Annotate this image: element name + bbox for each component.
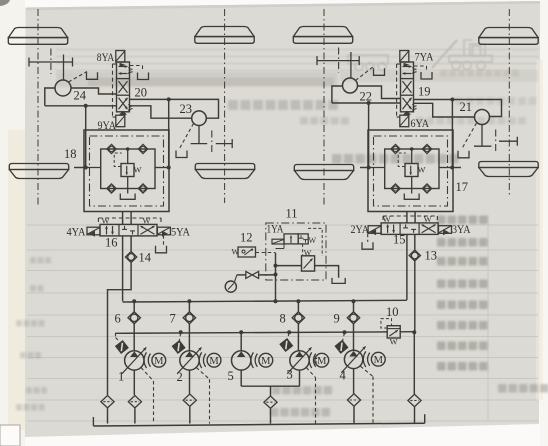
motor M5 xyxy=(251,352,273,368)
pump 2 drain xyxy=(196,368,209,424)
svg-text:23: 23 xyxy=(180,102,193,116)
steering cylinder 24 xyxy=(55,80,71,96)
pump 4 actuator xyxy=(334,340,348,354)
svg-text:10: 10 xyxy=(386,305,399,319)
label 9 xyxy=(334,312,340,326)
svg-text:2YA: 2YA xyxy=(351,222,370,236)
wire xyxy=(315,266,339,278)
svg-text:M: M xyxy=(317,356,327,367)
label 20 xyxy=(135,86,148,100)
svg-text:13: 13 xyxy=(425,249,438,263)
wire xyxy=(122,212,124,225)
check valve 8 xyxy=(292,312,304,324)
svg-text:5YA: 5YA xyxy=(171,225,190,239)
valve 16 pilot dashes xyxy=(98,218,161,224)
junction xyxy=(343,330,347,334)
wire xyxy=(299,370,301,386)
valve 20 pilot dashes xyxy=(113,64,117,117)
motor M3 xyxy=(309,352,328,368)
steering motor 23 xyxy=(192,111,207,126)
wire xyxy=(406,212,408,223)
label 19 xyxy=(418,85,431,99)
filter under pump 1 xyxy=(128,396,141,408)
steering axle cross 21 xyxy=(496,130,518,154)
valve 16 drain xyxy=(156,235,167,253)
wire xyxy=(237,274,276,276)
valve 20 drain line xyxy=(130,66,149,80)
pump 2 (variable) xyxy=(177,347,201,373)
wire xyxy=(130,236,132,252)
steering axle cross 23 xyxy=(212,131,232,153)
wire xyxy=(45,105,116,107)
label 2 xyxy=(177,370,183,384)
tyre rear-mid-right xyxy=(294,165,353,180)
solenoid 5YA label xyxy=(171,225,190,239)
label 3 xyxy=(287,368,293,382)
wire xyxy=(130,106,192,118)
junction xyxy=(450,98,454,102)
valve block 17 (bridge + relief) xyxy=(368,130,453,212)
label 7 xyxy=(170,312,176,326)
svg-text:W: W xyxy=(410,103,419,111)
steering column 22 xyxy=(350,52,352,78)
svg-text:19: 19 xyxy=(418,85,431,99)
pump 3 actuator pilot xyxy=(287,333,289,340)
svg-text:15: 15 xyxy=(393,233,406,247)
label 6 xyxy=(115,312,121,326)
shutoff valve xyxy=(246,271,259,278)
wire xyxy=(240,332,242,351)
valve 16 (4/3 solenoid directional valve) xyxy=(87,216,170,237)
svg-text:12: 12 xyxy=(240,231,253,245)
wire xyxy=(74,167,84,169)
pump 1 actuator pilot xyxy=(116,333,120,341)
check valve 13 xyxy=(409,250,420,261)
wire xyxy=(414,103,475,117)
junction xyxy=(274,273,278,277)
wire xyxy=(414,212,416,223)
wire xyxy=(168,99,170,167)
wire xyxy=(413,332,415,394)
svg-text:2: 2 xyxy=(177,370,183,384)
steering motor 21 xyxy=(475,110,490,125)
label 8 xyxy=(280,312,286,326)
solenoid 4YA label xyxy=(67,225,86,239)
drain at cylinder 22 xyxy=(356,67,385,81)
label 13 xyxy=(425,249,438,263)
junction xyxy=(167,97,171,101)
drain at motor 21 xyxy=(458,123,477,158)
svg-text:4YA: 4YA xyxy=(67,225,86,239)
lower manifold xyxy=(116,332,415,334)
valve 15 drain xyxy=(362,234,373,250)
svg-text:6YA: 6YA xyxy=(411,116,430,130)
check valve 9 xyxy=(347,312,359,324)
svg-text:W: W xyxy=(309,236,317,245)
junction xyxy=(167,166,171,170)
junction xyxy=(132,299,136,303)
valve 15 (4/3 solenoid directional valve) xyxy=(368,214,451,235)
wire xyxy=(353,407,355,424)
pump 3 drain xyxy=(306,368,315,424)
svg-text:16: 16 xyxy=(105,236,118,250)
svg-text:M: M xyxy=(209,356,219,367)
svg-text:W: W xyxy=(142,216,150,226)
drain at cylinder 24 xyxy=(69,72,98,83)
steering axle cross right-front xyxy=(317,48,359,73)
wire xyxy=(241,385,299,387)
wire xyxy=(360,167,368,169)
filter right return xyxy=(408,394,421,406)
junction xyxy=(274,299,278,303)
wire xyxy=(414,234,416,249)
label 11 xyxy=(286,207,298,221)
wire xyxy=(188,324,190,351)
wire return jog xyxy=(108,263,132,396)
label 15 xyxy=(393,233,406,247)
svg-text:W: W xyxy=(101,216,109,226)
pump 4 drain xyxy=(360,366,373,423)
axle centreline front-mid-right xyxy=(323,9,325,205)
label 14 xyxy=(139,251,152,265)
axle centreline front-right xyxy=(508,9,510,195)
label 24 xyxy=(74,89,87,103)
label 18 xyxy=(64,147,77,161)
steering cylinder 22 xyxy=(343,78,358,93)
upper manifold xyxy=(123,300,407,302)
svg-text:M: M xyxy=(154,356,164,367)
svg-text:18: 18 xyxy=(64,147,77,161)
motor M4 xyxy=(363,351,385,367)
filter left return xyxy=(101,396,114,408)
wire xyxy=(130,99,219,118)
pump 4 (variable) xyxy=(341,346,365,372)
wire xyxy=(358,86,401,99)
wire xyxy=(240,370,242,386)
filter under pump 4 xyxy=(347,394,360,406)
valve 20 (4/3 solenoid directional valve) xyxy=(116,51,135,127)
svg-text:1YA: 1YA xyxy=(267,222,284,236)
svg-text:9: 9 xyxy=(334,312,340,326)
tyre front-mid-right xyxy=(293,27,352,44)
relief valve 10 xyxy=(381,319,400,347)
pump 1 drain xyxy=(141,368,154,424)
wire xyxy=(134,408,136,423)
wire xyxy=(85,106,87,168)
label 21 xyxy=(460,100,473,114)
svg-text:1: 1 xyxy=(118,370,124,384)
svg-text:W: W xyxy=(417,165,425,175)
solenoid 3YA label xyxy=(452,222,471,236)
solenoid 8YA label xyxy=(97,50,115,64)
check valve 6 xyxy=(128,312,140,324)
check valve 14 xyxy=(126,252,137,263)
valve 15 pilot dashes xyxy=(383,216,437,223)
wire xyxy=(297,324,299,351)
tyre front-mid-left xyxy=(195,27,254,44)
svg-text:6: 6 xyxy=(115,312,121,326)
wire xyxy=(297,301,299,312)
svg-text:17: 17 xyxy=(456,180,469,194)
tyre front-right xyxy=(479,28,538,45)
drain at motor 23 xyxy=(176,124,194,158)
valve block 18 (bridge + relief) xyxy=(84,130,169,212)
valve 19 pilot dashes xyxy=(397,64,400,117)
label 12 xyxy=(240,231,253,245)
svg-text:14: 14 xyxy=(139,251,152,265)
rail stub left xyxy=(92,417,94,426)
svg-text:5: 5 xyxy=(228,369,234,383)
wire xyxy=(188,301,190,312)
unit 11 enclosure xyxy=(266,223,326,280)
solenoid 2YA label xyxy=(351,222,370,236)
junction xyxy=(239,330,243,334)
junction xyxy=(352,299,356,303)
wire xyxy=(353,369,355,394)
svg-text:W: W xyxy=(232,248,240,257)
pressure gauge xyxy=(225,275,237,292)
wire xyxy=(133,324,135,351)
wire xyxy=(451,100,453,168)
axle centreline front-left xyxy=(37,9,39,205)
junction xyxy=(179,330,183,334)
label 4 xyxy=(340,369,347,383)
svg-text:W: W xyxy=(390,337,398,347)
svg-text:4: 4 xyxy=(340,369,347,383)
wire xyxy=(453,167,461,169)
junction xyxy=(84,166,88,170)
axle centreline front-mid-left xyxy=(224,9,226,203)
pump 2 actuator pilot xyxy=(179,333,181,342)
label 23 xyxy=(180,102,193,116)
svg-text:M: M xyxy=(261,356,271,367)
motor M1 xyxy=(144,352,166,368)
svg-text:W: W xyxy=(126,66,135,74)
wire xyxy=(332,86,343,103)
svg-text:21: 21 xyxy=(460,100,473,114)
wire xyxy=(270,409,272,424)
label 22 xyxy=(360,90,373,104)
pilot line to switch 12 xyxy=(256,252,276,254)
pump 1 (variable) xyxy=(122,347,146,373)
motor M2 xyxy=(199,352,221,368)
valve 1YA (2/2 unloading valve) xyxy=(272,234,317,245)
label 1 xyxy=(118,370,124,384)
svg-text:7: 7 xyxy=(170,312,176,326)
wire xyxy=(71,88,116,94)
wire xyxy=(133,370,135,395)
junction xyxy=(296,299,300,303)
junction xyxy=(367,101,371,105)
label 5 xyxy=(228,369,234,383)
pump 5 (fixed) xyxy=(232,351,251,370)
wire xyxy=(133,301,135,312)
check valve 7 xyxy=(183,312,195,324)
svg-text:W: W xyxy=(133,165,141,175)
wire xyxy=(414,100,502,117)
tyre rear-left xyxy=(9,164,68,179)
solenoid 1YA label xyxy=(267,222,284,236)
junction xyxy=(367,166,371,170)
junction xyxy=(287,330,291,334)
svg-text:24: 24 xyxy=(74,89,87,103)
pressure switch 12 xyxy=(232,247,256,257)
wire xyxy=(276,265,301,267)
svg-text:7YA: 7YA xyxy=(415,50,434,64)
junction xyxy=(274,264,278,268)
wire xyxy=(189,407,191,424)
svg-text:22: 22 xyxy=(360,90,373,104)
label 10 xyxy=(386,305,399,319)
wire xyxy=(270,386,272,395)
wire xyxy=(45,88,55,106)
wire xyxy=(107,408,109,423)
tyre rear-mid-left xyxy=(195,164,254,179)
steering link 21 xyxy=(474,125,491,147)
svg-text:11: 11 xyxy=(286,207,298,221)
pump 1 actuator xyxy=(115,340,129,354)
relief valve in unit 11 xyxy=(302,248,315,271)
wire xyxy=(332,102,400,104)
rail stub right xyxy=(424,414,426,423)
label 17 xyxy=(456,180,469,194)
solenoid 7YA label xyxy=(415,50,434,64)
pump 4 actuator pilot xyxy=(343,333,345,341)
valve 19 drain line xyxy=(414,66,432,79)
valve 1YA pilot dashes xyxy=(303,228,323,256)
tyre front-left xyxy=(8,28,67,45)
tyre rear-right xyxy=(479,162,538,177)
svg-text:W: W xyxy=(126,103,135,111)
svg-text:8: 8 xyxy=(280,312,286,326)
svg-text:3: 3 xyxy=(287,368,293,382)
wire xyxy=(353,324,355,351)
steering column 24 xyxy=(63,55,65,81)
wire xyxy=(275,253,277,301)
wire xyxy=(276,244,285,249)
junction xyxy=(84,104,88,108)
wire xyxy=(368,103,370,168)
svg-text:W: W xyxy=(410,66,419,74)
filter under pumps 5 and 3 xyxy=(264,396,277,408)
label 16 xyxy=(105,236,118,250)
wire xyxy=(353,301,355,312)
junction xyxy=(412,330,416,334)
wire xyxy=(130,212,132,225)
filter under pump 2 xyxy=(183,394,196,406)
wire xyxy=(414,407,416,423)
pump 2 actuator xyxy=(172,340,186,354)
wire xyxy=(414,261,416,331)
svg-text:20: 20 xyxy=(135,86,148,100)
junction xyxy=(187,299,191,303)
svg-text:W: W xyxy=(304,248,312,257)
solenoid 6YA label xyxy=(411,116,430,130)
wire xyxy=(406,234,408,300)
pump 3 actuator xyxy=(279,338,293,352)
svg-text:3YA: 3YA xyxy=(452,222,471,236)
wire xyxy=(122,236,124,301)
valve 19 (4/3 solenoid directional valve) xyxy=(400,51,419,127)
tank rail xyxy=(93,423,424,426)
wire xyxy=(189,370,191,394)
tank at unit 11 xyxy=(332,278,345,284)
solenoid 9YA label xyxy=(98,118,117,132)
svg-text:8YA: 8YA xyxy=(97,50,115,64)
svg-text:M: M xyxy=(374,355,384,366)
pump 3 (variable) xyxy=(287,347,311,373)
junction xyxy=(450,166,454,170)
steering link 23 xyxy=(191,126,208,144)
steering axle cross left-front xyxy=(29,49,73,75)
